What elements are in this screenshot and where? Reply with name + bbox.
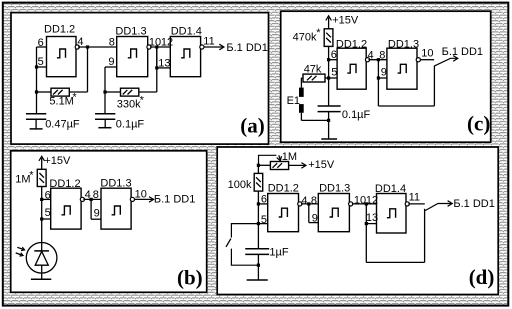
arrowhead output (b): [149, 197, 154, 203]
inverter DD1.4 (a): [170, 37, 204, 77]
wire +15V arrow stem (c): [328, 18, 330, 29]
wire down to R1 row: [36, 67, 38, 92]
wire pin9 DD1.3(d): [309, 222, 319, 224]
svg-text:+15V: +15V: [308, 159, 335, 171]
wire tie 6-5 (c): [328, 60, 330, 78]
wire R5 right lead: [325, 77, 329, 79]
wire tie 6-5 (b): [41, 199, 43, 219]
svg-text:13: 13: [158, 57, 170, 69]
node pin5 junction (c): [327, 76, 330, 79]
svg-text:5: 5: [331, 66, 337, 78]
svg-text:0.1µF: 0.1µF: [342, 109, 371, 121]
node pin6 junction (d): [257, 202, 260, 205]
wire node to R6: [257, 165, 259, 173]
wire wiper diagonal: [279, 155, 280, 159]
wire feedback up (d): [365, 224, 367, 263]
wire pin9 DD1.3(b): [91, 218, 101, 220]
svg-text:1M: 1M: [15, 173, 30, 185]
inverter DD1.2 (a): [47, 37, 80, 77]
wire pin13 DD1.4(a): [157, 67, 171, 69]
svg-text:11: 11: [203, 35, 214, 47]
wire pin5 DD1.2(b): [42, 218, 51, 220]
svg-text:*: *: [72, 91, 77, 103]
wire R2 left lead: [105, 91, 121, 93]
svg-text:9: 9: [312, 213, 318, 225]
wire R4 to pin6: [328, 46, 330, 59]
svg-text:Б.1 DD1: Б.1 DD1: [453, 198, 494, 210]
svg-text:9: 9: [94, 207, 100, 219]
wire output 10 arrow line (b): [134, 198, 152, 200]
svg-text:4: 4: [301, 195, 307, 207]
resistor R3 1M: [37, 169, 46, 186]
svg-text:9: 9: [381, 66, 387, 78]
wire pin5 to C4: [257, 224, 259, 249]
wire feedback up (c): [433, 66, 435, 107]
wire down to photodiode: [41, 219, 43, 251]
svg-text:10: 10: [149, 37, 161, 49]
wire pin6 DD1.2(c): [329, 59, 338, 61]
svg-text:Б.1 DD1: Б.1 DD1: [154, 194, 195, 206]
svg-text:+15V: +15V: [332, 14, 359, 26]
resistor R1 5.1M: [51, 88, 69, 96]
photodiode VD1 circle: [26, 242, 57, 273]
node pin9 junction (c): [377, 76, 380, 79]
svg-text:5: 5: [38, 56, 44, 68]
wire R3 to pin6: [41, 187, 43, 200]
wire output4 to pin8 (d): [301, 203, 318, 205]
light arrow 1: [17, 247, 23, 249]
wire output4 to pin8: [78, 46, 117, 48]
wire wiper line (d): [259, 155, 277, 165]
resistor R5 47k: [303, 74, 325, 82]
svg-text:6: 6: [331, 49, 337, 61]
svg-text:Б.1 DD1: Б.1 DD1: [226, 42, 267, 54]
wire output 11 (d): [408, 203, 425, 205]
svg-text:5: 5: [261, 214, 267, 226]
ground (a) left: [30, 128, 43, 130]
arrowhead output (d): [448, 201, 453, 207]
svg-text:DD1.3: DD1.3: [100, 178, 131, 190]
svg-text:11: 11: [409, 192, 420, 204]
inverter DD1.4 (d): [377, 194, 410, 234]
svg-text:8: 8: [379, 49, 385, 61]
arrowhead wiper onto R7: [277, 156, 282, 161]
resistor R6 100k: [254, 173, 263, 191]
svg-text:(d): (d): [469, 265, 495, 289]
svg-text:DD1.4: DD1.4: [375, 183, 406, 195]
sensor E1 plate 1: [299, 88, 304, 97]
svg-text:(c): (c): [467, 111, 490, 135]
svg-text:9: 9: [108, 56, 114, 68]
capacitor C1 0.47uF: [26, 114, 46, 120]
wire pin5 DD1.2(d): [258, 223, 267, 225]
wire output diagonal arrow (c): [435, 58, 457, 66]
light arrow 2: [16, 253, 22, 255]
node pin6 junction (c): [327, 58, 330, 61]
svg-text:0.47µF: 0.47µF: [45, 118, 80, 130]
wire feedback bottom (d): [366, 261, 424, 263]
resistor R2 330k: [121, 88, 139, 96]
svg-text:10: 10: [135, 188, 147, 200]
wire feedback bottom (c): [378, 105, 434, 107]
wire pin5 to C3: [328, 78, 330, 106]
svg-text:DD1.4: DD1.4: [171, 26, 202, 38]
node output4 junction (b): [90, 198, 93, 201]
svg-text:DD1.2: DD1.2: [49, 178, 80, 190]
panel (d) frame: [217, 147, 498, 295]
ground (a) right: [98, 127, 111, 129]
ground (b): [31, 278, 51, 280]
wire tie 8-9 (b): [90, 199, 92, 219]
panel (a) frame: [11, 13, 269, 145]
inverter DD1.2 (d): [268, 194, 302, 232]
node C4 bottom junction: [257, 264, 260, 267]
wire output4 to pin8 (b): [83, 198, 101, 200]
wire R7 left lead: [258, 164, 270, 166]
wire output10 to pin12 (d): [352, 203, 377, 205]
wire pin9 down to R2: [104, 67, 106, 92]
node R7 left junction: [257, 164, 260, 167]
sensor contact diagonal (d): [226, 239, 231, 247]
wire pin9 DD1.3(c): [378, 77, 387, 79]
svg-text:12: 12: [161, 37, 173, 49]
node pin13 junction (a): [155, 66, 158, 69]
svg-text:(b): (b): [177, 265, 203, 289]
svg-text:8: 8: [93, 189, 99, 201]
wire tie 8-9 (c): [377, 60, 379, 78]
inverter DD1.3 (d): [318, 194, 353, 232]
wire output 10 (c): [420, 59, 434, 61]
wire output10 to pin12: [150, 46, 170, 48]
node pin5/C1 junction: [35, 65, 38, 68]
svg-text:DD1.2: DD1.2: [44, 24, 75, 36]
arrowhead +15V (d): [301, 163, 306, 169]
node pin5 junction (d): [257, 222, 260, 225]
wire R2 right lead: [139, 91, 157, 93]
svg-text:*: *: [29, 169, 34, 181]
wire C3 to ground: [328, 112, 330, 139]
wire pin9 DD1.3(a): [105, 66, 117, 68]
svg-text:6: 6: [38, 37, 44, 49]
node pin13 junction (d): [365, 222, 368, 225]
node pin6 junction (b): [40, 198, 43, 201]
svg-text:DD1.2: DD1.2: [336, 38, 367, 50]
wire pin9 feedback down: [377, 78, 379, 106]
svg-text:5: 5: [45, 207, 51, 219]
photodiode VD1 triangle: [35, 251, 48, 265]
ground (d): [247, 279, 268, 281]
node output4 junction (c): [377, 58, 380, 61]
node pin12 junction (d): [365, 202, 368, 205]
wire pin6 DD1.2(d): [258, 203, 267, 205]
svg-text:Б.1 DD1: Б.1 DD1: [442, 46, 483, 58]
svg-text:DD1.3: DD1.3: [388, 38, 419, 50]
wire tie 8-9 (d): [308, 204, 310, 223]
inverter DD1.3 (a): [117, 37, 151, 77]
svg-text:(a): (a): [240, 113, 264, 137]
svg-text:5.1M: 5.1M: [49, 96, 73, 108]
wire +15V arrow stem (b): [41, 158, 43, 169]
svg-text:E1: E1: [287, 95, 300, 107]
wire sensor bottom lead: [231, 249, 258, 266]
wire pin13 DD1.4(d): [366, 223, 376, 225]
sensor E1 plate 2: [299, 104, 304, 113]
svg-text:470k: 470k: [293, 32, 317, 44]
resistor R4 470k: [324, 29, 333, 47]
node C3 bottom junction: [327, 119, 330, 122]
svg-text:8: 8: [311, 195, 317, 207]
svg-text:DD1.3: DD1.3: [319, 183, 350, 195]
wire R1 right lead: [69, 91, 87, 93]
node R2 left junction: [103, 90, 106, 93]
wire E1 bottom to C3 node: [301, 119, 328, 121]
svg-text:6: 6: [45, 189, 51, 201]
photodiode VD1 cathode bar: [34, 250, 49, 252]
wire feedback up to output 4: [87, 47, 89, 92]
svg-text:330k: 330k: [117, 99, 141, 111]
svg-text:4: 4: [77, 36, 83, 48]
wire tie 6-5 (d): [257, 204, 259, 224]
svg-text:8: 8: [109, 36, 115, 48]
wire E1 down: [300, 113, 302, 121]
inverter DD1.3 (b): [101, 188, 134, 229]
wire photodiode to ground: [41, 265, 43, 279]
capacitor C4 1uF: [245, 249, 269, 255]
svg-text:1µF: 1µF: [269, 247, 288, 259]
node output4 junction (d): [307, 202, 310, 205]
svg-text:*: *: [316, 27, 321, 39]
wire C1 stem: [36, 92, 38, 114]
arrowhead +15V (b): [39, 156, 45, 161]
svg-text:10: 10: [421, 48, 433, 60]
node R1 left junction: [35, 90, 38, 93]
svg-text:*: *: [140, 95, 145, 107]
wire tie 12-13 (d): [365, 204, 367, 224]
wire sensor top lead: [231, 224, 258, 238]
svg-text:47k: 47k: [304, 64, 322, 76]
wire pin6 DD1.2(b): [42, 198, 51, 200]
wire C2 to ground: [104, 119, 106, 127]
svg-text:0.1µF: 0.1µF: [116, 119, 145, 131]
ground (c): [321, 138, 337, 140]
wire C4 to ground: [257, 254, 259, 280]
capacitor C3 0.1uF: [318, 106, 341, 112]
svg-text:DD1.2: DD1.2: [268, 183, 299, 195]
arrowhead +15V (c): [326, 16, 332, 21]
inverter DD1.3 (c): [387, 48, 421, 89]
wire pin5 DD1.2(c): [329, 77, 338, 79]
panel (c) frame: [281, 11, 491, 142]
wire R5 left lead: [301, 77, 303, 79]
wire R7 right to +15V: [289, 164, 305, 166]
panel (b) frame: [11, 151, 207, 292]
wire R1 left lead: [37, 91, 52, 93]
svg-text:+15V: +15V: [44, 155, 71, 167]
wire C2 stem: [104, 92, 106, 114]
wire tie 12-13: [156, 47, 158, 68]
node output10 junction: [155, 45, 158, 48]
wire output 11 arrow line: [204, 46, 223, 48]
svg-text:DD1.3: DD1.3: [115, 26, 146, 38]
wire input loop left DD1.2(a): [36, 47, 38, 67]
wire down to E1: [300, 78, 302, 88]
node output4 junction: [86, 45, 89, 48]
arrowhead output (a): [219, 44, 224, 50]
svg-text:100k: 100k: [228, 179, 252, 191]
inverter DD1.2 (b): [51, 188, 85, 229]
wire pin5 DD1.2(a): [37, 66, 47, 68]
wire output4 to pin8 (c): [369, 59, 387, 61]
resistor R7 1M: [270, 162, 288, 170]
wire R6 to pin6: [257, 191, 259, 204]
inverter DD1.2 (c): [337, 48, 370, 89]
arrowhead output (c): [453, 56, 458, 62]
capacitor C2 0.1uF: [95, 114, 115, 120]
wire output diagonal arrow (d): [425, 204, 451, 211]
svg-text:6: 6: [261, 193, 267, 205]
wire C1 to ground: [35, 119, 37, 129]
node pin5 junction (b): [40, 217, 43, 220]
wire feedback down (d): [424, 209, 426, 263]
wire pin6 DD1.2(a): [37, 46, 47, 48]
wire feedback up to output 10: [156, 47, 158, 92]
